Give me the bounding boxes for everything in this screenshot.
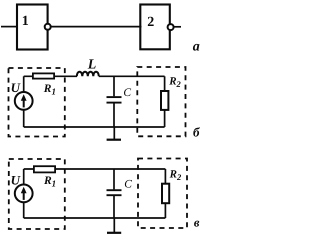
capacitor C branch (б): [113, 76, 115, 96]
source U circle (в): [15, 185, 33, 203]
two-port network box 2: [140, 5, 170, 50]
two-port network box 1: [17, 5, 48, 50]
resistor R2 branch (в): [164, 169, 166, 184]
svg-text:L: L: [87, 58, 97, 73]
dashed source box (в): [9, 159, 65, 229]
wire source top to R1 level (в): [23, 169, 25, 185]
dashed load box (в): [138, 159, 187, 229]
wire source top to R1 level: [23, 76, 25, 92]
svg-text:б: б: [193, 125, 200, 140]
source U circle: [15, 92, 33, 110]
source arrow (в): [23, 192, 25, 200]
svg-text:C: C: [123, 87, 131, 99]
svg-text:а: а: [193, 39, 200, 54]
svg-text:1: 1: [22, 14, 29, 29]
bottom wire (в): [24, 217, 166, 219]
dashed load box (б): [137, 67, 185, 136]
resistor R1 (в): [34, 166, 55, 172]
wire output stub of network 2: [174, 26, 182, 28]
top wire (в): [24, 168, 166, 170]
terminal circle of network 1: [45, 24, 51, 30]
svg-text:в: в: [194, 215, 200, 229]
svg-text:2: 2: [147, 15, 154, 30]
resistor R2 branch (б): [164, 76, 166, 91]
bottom wire (б): [24, 126, 165, 128]
inductor L coil: [77, 72, 99, 77]
resistor R1 (б): [33, 73, 54, 78]
ground (б): [113, 127, 115, 139]
wire between network 1 and network 2: [51, 26, 142, 28]
svg-text:U: U: [11, 80, 21, 95]
terminal circle of network 2: [168, 24, 174, 30]
svg-text:U: U: [11, 172, 21, 187]
source bottom wire (в): [23, 202, 25, 218]
top wire (б) from source to R2 branch: [24, 75, 77, 77]
ground (в): [113, 218, 115, 232]
capacitor C branch (в): [113, 169, 115, 189]
dashed source box (б): [9, 68, 65, 137]
source arrow: [23, 99, 25, 107]
wire input stub to network 1: [1, 26, 17, 28]
svg-text:C: C: [124, 179, 132, 191]
source bottom wire (б): [23, 110, 25, 127]
